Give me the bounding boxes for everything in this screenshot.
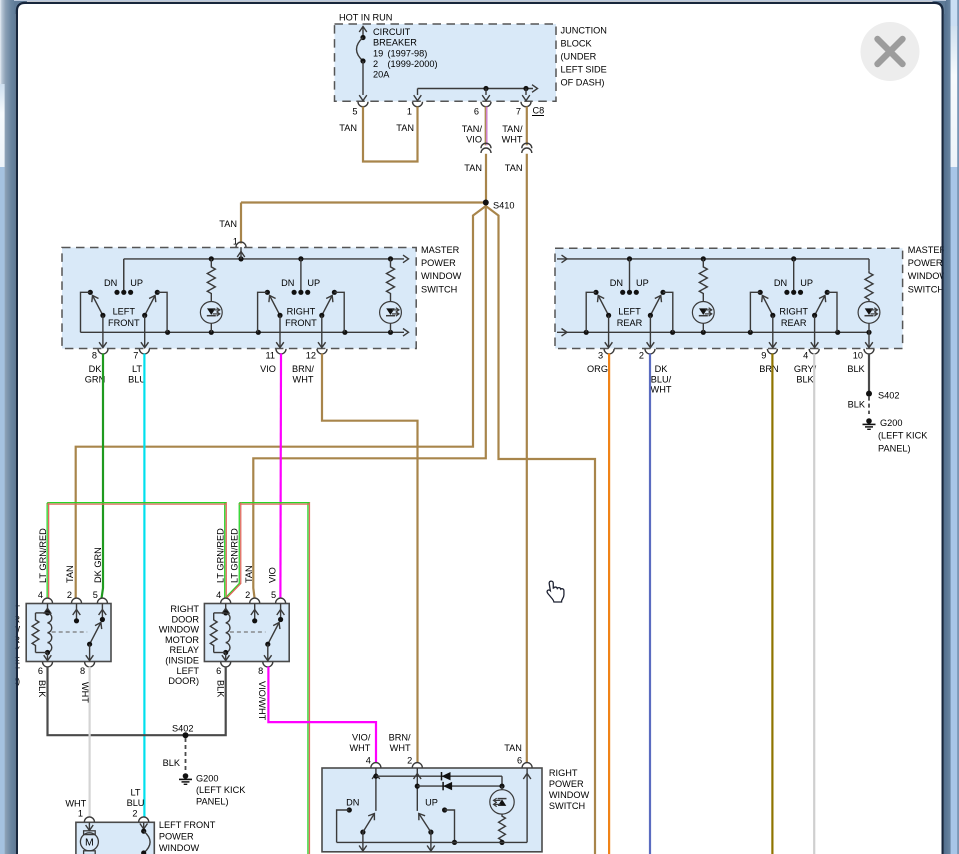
svg-text:G200: G200 — [880, 418, 902, 428]
svg-text:2: 2 — [132, 809, 137, 819]
svg-text:BREAKER: BREAKER — [373, 37, 417, 47]
svg-text:4: 4 — [366, 756, 371, 766]
svg-text:9: 9 — [761, 351, 766, 361]
svg-text:BRN: BRN — [759, 364, 778, 374]
svg-text:1: 1 — [78, 809, 83, 819]
svg-text:WINDOW: WINDOW — [421, 271, 462, 281]
svg-text:(1999-2000): (1999-2000) — [388, 59, 438, 69]
svg-text:LT GRN/RED: LT GRN/RED — [38, 528, 48, 583]
svg-text:BRN/: BRN/ — [292, 364, 314, 374]
svg-text:BLU/: BLU/ — [651, 374, 672, 384]
svg-text:LEFT: LEFT — [177, 666, 200, 676]
svg-text:VIO: VIO — [268, 567, 278, 583]
svg-text:PANEL): PANEL) — [878, 443, 911, 453]
svg-text:BLOCK: BLOCK — [561, 39, 593, 49]
svg-text:DN: DN — [104, 278, 117, 288]
svg-text:4: 4 — [38, 590, 43, 600]
svg-text:BLK: BLK — [163, 758, 181, 768]
svg-text:MOTOR: MOTOR — [165, 635, 199, 645]
svg-text:TAN: TAN — [504, 743, 522, 753]
svg-text:11: 11 — [265, 351, 275, 361]
svg-text:RELAY: RELAY — [170, 645, 199, 655]
svg-text:5: 5 — [93, 590, 98, 600]
svg-text:REAR: REAR — [781, 318, 807, 328]
svg-text:UP: UP — [425, 798, 438, 808]
svg-text:MASTER: MASTER — [908, 245, 947, 255]
svg-text:2: 2 — [67, 590, 72, 600]
svg-text:6: 6 — [216, 666, 221, 676]
svg-text:LT GRN/RED: LT GRN/RED — [216, 528, 226, 583]
svg-text:WINDOW: WINDOW — [159, 625, 200, 635]
svg-text:BLU: BLU — [127, 798, 145, 808]
svg-text:REAR: REAR — [617, 318, 643, 328]
svg-text:WINDOW: WINDOW — [159, 843, 200, 853]
svg-text:TAN/: TAN/ — [462, 124, 483, 134]
svg-text:TAN: TAN — [65, 565, 75, 583]
svg-text:BLK: BLK — [848, 400, 866, 410]
svg-text:LT: LT — [132, 364, 142, 374]
svg-text:DOOR: DOOR — [171, 614, 199, 624]
svg-text:SWITCH: SWITCH — [549, 801, 585, 811]
svg-text:TAN: TAN — [244, 565, 254, 583]
svg-text:WHT: WHT — [349, 743, 370, 753]
svg-text:TAN: TAN — [219, 219, 237, 229]
svg-text:LEFT FRONT: LEFT FRONT — [159, 820, 216, 830]
svg-text:RIGHT: RIGHT — [779, 307, 808, 317]
svg-text:FRONT: FRONT — [285, 318, 317, 328]
svg-text:HOT IN RUN: HOT IN RUN — [339, 13, 392, 23]
svg-text:6: 6 — [474, 107, 479, 117]
svg-text:5: 5 — [352, 107, 357, 117]
svg-text:FRONT: FRONT — [108, 318, 140, 328]
svg-text:(1997-98): (1997-98) — [388, 49, 428, 59]
svg-text:6: 6 — [38, 666, 43, 676]
svg-text:DN: DN — [774, 278, 787, 288]
svg-text:WHT: WHT — [502, 134, 523, 144]
svg-text:SWITCH: SWITCH — [421, 284, 457, 294]
svg-text:TAN: TAN — [505, 163, 523, 173]
svg-text:ORG: ORG — [587, 364, 608, 374]
svg-text:RIGHT: RIGHT — [287, 307, 316, 317]
svg-text:WINDOW: WINDOW — [549, 790, 590, 800]
svg-text:M: M — [85, 837, 94, 849]
svg-text:DK: DK — [655, 364, 669, 374]
svg-text:LEFT: LEFT — [113, 307, 136, 317]
svg-text:(LEFT KICK: (LEFT KICK — [878, 431, 928, 441]
svg-text:12: 12 — [306, 351, 316, 361]
svg-text:4: 4 — [216, 590, 221, 600]
svg-text:6: 6 — [517, 756, 522, 766]
svg-text:CIRCUIT: CIRCUIT — [373, 27, 411, 37]
svg-text:UP: UP — [307, 278, 320, 288]
svg-text:20A: 20A — [373, 70, 390, 80]
svg-text:LT GRN/RED: LT GRN/RED — [230, 528, 240, 583]
svg-text:POWER: POWER — [421, 258, 456, 268]
svg-text:C8: C8 — [533, 106, 545, 116]
svg-text:19: 19 — [373, 49, 383, 59]
svg-text:10: 10 — [853, 351, 863, 361]
svg-text:DN: DN — [346, 798, 359, 808]
svg-text:BLK: BLK — [216, 680, 226, 698]
svg-text:VIO/WHT: VIO/WHT — [257, 681, 267, 721]
svg-text:8: 8 — [80, 666, 85, 676]
svg-text:DK GRN: DK GRN — [93, 547, 103, 583]
svg-text:TAN: TAN — [464, 163, 482, 173]
svg-text:LEFT SIDE: LEFT SIDE — [561, 65, 607, 75]
svg-text:2: 2 — [407, 756, 412, 766]
svg-text:BLK: BLK — [847, 364, 865, 374]
svg-text:DK: DK — [89, 364, 103, 374]
svg-text:TAN: TAN — [396, 123, 414, 133]
svg-text:WHT: WHT — [651, 385, 672, 395]
svg-text:8: 8 — [92, 351, 97, 361]
svg-text:5: 5 — [271, 590, 276, 600]
svg-text:BLU: BLU — [128, 374, 146, 384]
svg-text:VIO: VIO — [260, 364, 276, 374]
svg-text:S402: S402 — [878, 391, 899, 401]
svg-text:UP: UP — [636, 278, 649, 288]
svg-text:BLK: BLK — [37, 680, 47, 698]
svg-text:1: 1 — [407, 107, 412, 117]
svg-text:4: 4 — [803, 351, 808, 361]
svg-text:TAN/: TAN/ — [502, 124, 523, 134]
svg-text:VIO/: VIO/ — [352, 733, 371, 743]
svg-text:7: 7 — [133, 351, 138, 361]
svg-text:RIGHT: RIGHT — [170, 604, 199, 614]
svg-text:G200: G200 — [196, 774, 218, 784]
svg-text:OF DASH): OF DASH) — [561, 78, 605, 88]
svg-text:(INSIDE: (INSIDE — [165, 656, 199, 666]
svg-text:VIO: VIO — [466, 134, 482, 144]
svg-text:(LEFT KICK: (LEFT KICK — [196, 785, 246, 795]
svg-text:POWER: POWER — [549, 779, 584, 789]
svg-text:LT: LT — [130, 788, 140, 798]
svg-text:DN: DN — [281, 278, 294, 288]
svg-text:PANEL): PANEL) — [196, 797, 229, 807]
svg-text:8: 8 — [258, 666, 263, 676]
svg-text:2: 2 — [373, 59, 378, 69]
svg-text:WHT: WHT — [293, 374, 314, 384]
svg-text:2: 2 — [639, 351, 644, 361]
svg-text:(UNDER: (UNDER — [561, 52, 597, 62]
svg-text:3: 3 — [598, 351, 603, 361]
svg-text:WHT: WHT — [390, 743, 411, 753]
svg-text:LEFT: LEFT — [618, 307, 641, 317]
svg-text:SWITCH: SWITCH — [908, 284, 944, 294]
svg-text:RIGHT: RIGHT — [549, 768, 578, 778]
svg-text:JUNCTION: JUNCTION — [561, 26, 607, 36]
svg-text:WHT: WHT — [65, 799, 86, 809]
svg-text:BLK: BLK — [796, 374, 814, 384]
svg-text:DN: DN — [610, 278, 623, 288]
svg-text:S410: S410 — [493, 201, 514, 211]
svg-text:MASTER: MASTER — [421, 245, 460, 255]
svg-text:POWER: POWER — [908, 258, 943, 268]
svg-text:UP: UP — [800, 278, 813, 288]
svg-text:BRN/: BRN/ — [389, 733, 411, 743]
svg-text:7: 7 — [516, 107, 521, 117]
svg-text:UP: UP — [130, 278, 143, 288]
svg-text:S402: S402 — [172, 724, 193, 734]
svg-text:POWER: POWER — [159, 832, 194, 842]
svg-text:2: 2 — [245, 590, 250, 600]
svg-text:TAN: TAN — [339, 123, 357, 133]
svg-text:DOOR): DOOR) — [168, 676, 199, 686]
